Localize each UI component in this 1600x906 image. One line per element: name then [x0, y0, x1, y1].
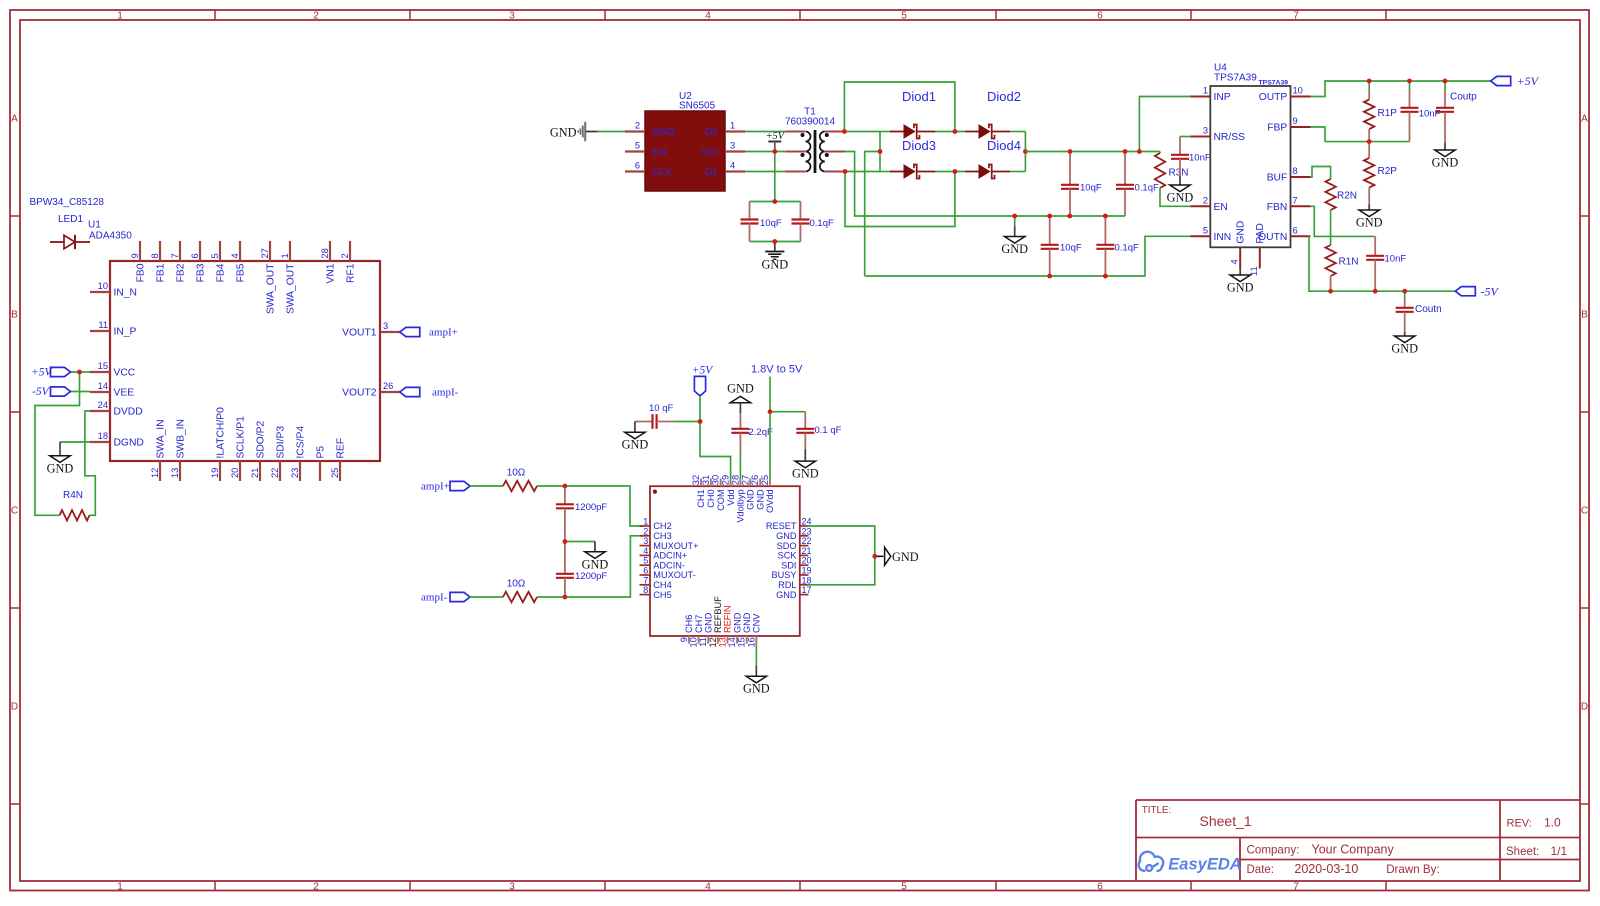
U4 pin 3 NR/SS: [1190, 136, 1210, 138]
svg-text:P5: P5: [315, 446, 326, 459]
svg-text:+5V: +5V: [766, 131, 786, 142]
svg-text:R3N: R3N: [1169, 168, 1189, 179]
wire: [1309, 236, 1455, 291]
svg-text:GND: GND: [1356, 216, 1383, 230]
U1 pin 3 VOUT1: [380, 331, 400, 333]
svg-text:D2: D2: [705, 127, 718, 138]
svg-text:DVDD: DVDD: [114, 407, 143, 418]
U2 pin 2 GND: [625, 130, 645, 132]
wire: [1180, 136, 1190, 138]
svg-text:2: 2: [635, 121, 640, 131]
wire: [565, 541, 595, 543]
ADC pin 2 CH3: [640, 535, 651, 537]
U4 pin 7 FBN: [1291, 205, 1311, 207]
U4 pin 4 GND: [1239, 247, 1241, 268]
svg-text:SDO/P2: SDO/P2: [255, 420, 266, 458]
svg-text:A: A: [1581, 114, 1588, 125]
ground at Coutp: [1444, 143, 1446, 150]
svg-text:CH3: CH3: [653, 531, 671, 541]
wire: [537, 536, 643, 597]
ADC pin 20 SDI: [800, 564, 809, 566]
svg-text:7: 7: [643, 575, 648, 585]
wire: [1160, 188, 1190, 206]
svg-text:1.0: 1.0: [1544, 816, 1561, 830]
svg-text:ampI+: ampI+: [421, 480, 450, 492]
ADC pin 22 SDO: [800, 545, 809, 547]
U1 pin 20 SCLK/P1: [239, 461, 241, 481]
ADC pin 29 Vdd: [730, 479, 732, 487]
svg-text:2: 2: [643, 526, 648, 536]
svg-text:4: 4: [705, 10, 711, 21]
svg-text:10: 10: [1293, 86, 1303, 96]
svg-text:9: 9: [679, 637, 689, 642]
junction: [1373, 289, 1378, 294]
U1 pin 13 SWB_IN: [179, 461, 181, 481]
U1 pin 1 SWA_OUT: [289, 241, 291, 261]
wire: [845, 152, 1125, 217]
svg-text:9: 9: [1293, 116, 1298, 126]
wire: [935, 131, 965, 133]
junction: [698, 419, 703, 424]
wire: [1025, 151, 1160, 153]
T1 pin stubs: [785, 131, 805, 133]
svg-text:5: 5: [635, 141, 640, 151]
svg-text:0.1 qF: 0.1 qF: [815, 425, 842, 436]
svg-text:COM: COM: [716, 489, 726, 510]
svg-text:0.1qF: 0.1qF: [1115, 243, 1139, 254]
wire: [1368, 81, 1370, 90]
svg-text:Drawn By:: Drawn By:: [1386, 863, 1439, 876]
svg-text:760390014: 760390014: [785, 116, 835, 127]
wire: [35, 372, 80, 515]
svg-text:30: 30: [711, 475, 721, 485]
svg-text:+5V: +5V: [1517, 74, 1540, 88]
U1 pin 25 REF: [339, 461, 341, 481]
U1 pin 15 VCC: [90, 371, 110, 373]
svg-text:10: 10: [98, 281, 108, 291]
svg-text:25: 25: [760, 475, 770, 485]
svg-text:3: 3: [730, 141, 735, 151]
net port +5V output: [1491, 76, 1511, 85]
svg-text:R1N: R1N: [1339, 257, 1359, 268]
junction: [1328, 289, 1333, 294]
U1 pin 19 !LATCH/P0: [219, 461, 221, 481]
svg-text:Date:: Date:: [1247, 864, 1275, 876]
junction: [842, 129, 847, 134]
svg-text:31: 31: [701, 475, 711, 485]
svg-text:+5V: +5V: [31, 367, 54, 379]
svg-text:Company:: Company:: [1247, 844, 1300, 857]
svg-text:1: 1: [643, 517, 648, 527]
svg-text:Diod1: Diod1: [902, 89, 936, 104]
U1 pin 4 FB5: [239, 241, 241, 261]
ADC pin 32 CH1: [700, 479, 702, 487]
svg-text:16: 16: [746, 637, 756, 647]
svg-text:10qF: 10qF: [760, 218, 782, 229]
wire: [1311, 81, 1491, 97]
svg-text:GND: GND: [745, 489, 755, 510]
svg-text:REV:: REV:: [1507, 818, 1532, 830]
svg-text:RF1: RF1: [345, 263, 356, 283]
svg-text:PAD: PAD: [1255, 223, 1266, 243]
wire: [674, 421, 700, 423]
ground at NR/SS cap: [1179, 176, 1181, 185]
ADC pin 1 marker: [653, 490, 657, 494]
wire: [750, 201, 801, 203]
U1 pin 21 SDO/P2: [259, 461, 261, 481]
U4 pin 2 EN: [1190, 205, 1210, 207]
wire: [1010, 171, 1025, 173]
svg-text:CH0: CH0: [706, 489, 716, 507]
svg-text:6: 6: [1293, 226, 1298, 236]
svg-text:FBP: FBP: [1267, 123, 1287, 134]
svg-text:Vcc: Vcc: [701, 147, 718, 158]
svg-text:REF: REF: [335, 438, 346, 459]
svg-text:6: 6: [635, 161, 640, 171]
svg-text:4: 4: [1230, 259, 1240, 264]
svg-text:BPW34_C85128: BPW34_C85128: [30, 197, 105, 208]
svg-text:ADA4350: ADA4350: [89, 231, 132, 242]
svg-text:29: 29: [721, 475, 731, 485]
svg-text:CNV: CNV: [752, 613, 762, 633]
svg-text:5: 5: [1203, 226, 1208, 236]
junction: [1023, 149, 1028, 154]
svg-text:TITLE:: TITLE:: [1142, 805, 1171, 816]
wire: [750, 241, 801, 243]
svg-text:2: 2: [313, 10, 319, 21]
junction: [1123, 149, 1128, 154]
ground at CNV: [755, 666, 757, 676]
U1 pin 23 !CS/P4: [299, 461, 301, 481]
svg-text:CH6: CH6: [684, 615, 694, 633]
svg-text:SWA_OUT: SWA_OUT: [285, 263, 296, 314]
svg-text:GND: GND: [761, 258, 788, 272]
svg-text:VOUT1: VOUT1: [342, 328, 377, 339]
junction: [772, 239, 777, 244]
svg-text:IN_N: IN_N: [114, 288, 137, 299]
junction: [77, 370, 82, 375]
svg-text:Sheet_1: Sheet_1: [1200, 813, 1252, 829]
svg-text:SCK: SCK: [778, 551, 798, 561]
resistor R2N: [1325, 179, 1335, 210]
svg-text:INP: INP: [1214, 92, 1231, 103]
svg-text:U1: U1: [88, 220, 101, 231]
transformer driver U2 SN6505 body: [645, 111, 725, 191]
svg-text:GND: GND: [1001, 242, 1028, 256]
junction: [1012, 214, 1017, 219]
svg-text:GND: GND: [703, 612, 713, 633]
svg-text:CH7: CH7: [694, 615, 704, 633]
svg-text:SWB_IN: SWB_IN: [175, 419, 186, 458]
capacitor 10qF lower pair: [1049, 216, 1051, 245]
svg-text:23: 23: [802, 526, 812, 536]
svg-text:VCC: VCC: [114, 368, 136, 379]
wire: [1139, 97, 1190, 152]
svg-text:6: 6: [1097, 10, 1103, 21]
wire: [845, 171, 880, 173]
wire: [71, 391, 91, 393]
ADC pin 7 CH4: [640, 584, 651, 586]
svg-text:INN: INN: [1214, 232, 1232, 243]
svg-text:11: 11: [698, 637, 708, 647]
svg-text:FB3: FB3: [195, 263, 206, 282]
svg-text:TPS7A39: TPS7A39: [1259, 79, 1289, 86]
svg-text:3: 3: [509, 10, 515, 21]
svg-text:1200pF: 1200pF: [575, 502, 607, 513]
wire: [807, 526, 875, 585]
svg-text:ADCIN-: ADCIN-: [653, 560, 685, 570]
svg-text:ampI+: ampI+: [429, 327, 458, 339]
svg-text:FB4: FB4: [215, 263, 226, 282]
wire: [1409, 81, 1411, 90]
wire: [880, 131, 891, 133]
svg-text:10 qF: 10 qF: [649, 403, 673, 414]
U2 pin 6 CLK: [625, 170, 645, 172]
wire: [597, 131, 625, 133]
svg-text:GND: GND: [1167, 191, 1194, 205]
svg-text:5: 5: [901, 881, 907, 892]
svg-text:D: D: [11, 702, 18, 713]
junction: [953, 129, 958, 134]
ADC pin 31 CH0: [710, 479, 712, 487]
wire: [1024, 132, 1026, 172]
svg-text:GND: GND: [792, 467, 819, 481]
svg-text:GND: GND: [1432, 156, 1459, 170]
wire: [745, 131, 785, 133]
svg-text:7: 7: [170, 253, 180, 258]
svg-text:C: C: [11, 506, 18, 517]
EasyEDA logo: [1139, 852, 1164, 871]
svg-text:D: D: [1581, 702, 1588, 713]
U2 pin 1 D2: [725, 130, 745, 132]
svg-text:SCLK/P1: SCLK/P1: [235, 416, 246, 459]
net port -5V output: [1455, 287, 1475, 296]
wire: [1311, 167, 1331, 180]
ADC pin 18 RDL: [800, 584, 809, 586]
wire: [1311, 206, 1376, 236]
U1 pin 9 FB0: [139, 241, 141, 261]
capacitor 10qF at T1: [749, 202, 751, 220]
regulator U4 body: [1210, 86, 1290, 247]
wire: [1311, 127, 1410, 142]
U1 pin P5 P5: [319, 461, 321, 481]
svg-text:VOUT2: VOUT2: [342, 388, 377, 399]
ADC pin 9 CH6: [688, 636, 690, 644]
svg-text:CH1: CH1: [696, 489, 706, 507]
junction: [1047, 214, 1052, 219]
svg-text:GND: GND: [776, 531, 797, 541]
svg-text:REFIN: REFIN: [723, 605, 733, 633]
svg-text:ampI-: ampI-: [421, 591, 448, 603]
resistor 10 ohm upper: [503, 481, 537, 491]
wire: [739, 453, 741, 479]
U1 pin 26 VOUT2: [380, 391, 400, 393]
wire: [935, 171, 965, 173]
svg-text:4: 4: [230, 253, 240, 258]
svg-text:MUXOUT+: MUXOUT+: [653, 541, 698, 551]
svg-text:19: 19: [210, 468, 220, 478]
capacitor 2.2qF at Vdolbyp: [739, 413, 741, 429]
svg-text:ampI-: ampI-: [432, 387, 459, 399]
svg-text:FB5: FB5: [235, 263, 246, 282]
svg-text:VN1: VN1: [325, 263, 336, 283]
junction: [878, 149, 883, 154]
svg-text:R1P: R1P: [1378, 108, 1398, 119]
wire: [845, 172, 955, 227]
svg-text:GND: GND: [776, 590, 797, 600]
svg-text:-5V: -5V: [32, 386, 51, 398]
wire: [1159, 152, 1161, 154]
svg-text:10: 10: [689, 637, 699, 647]
junction: [1103, 274, 1108, 279]
svg-text:23: 23: [290, 468, 300, 478]
junction: [1367, 79, 1372, 84]
svg-text:Vdd: Vdd: [726, 489, 736, 505]
wire: [1404, 291, 1406, 298]
svg-text:B: B: [1581, 310, 1588, 321]
svg-text:5: 5: [901, 10, 907, 21]
svg-text:10Ω: 10Ω: [507, 579, 526, 590]
wire: [879, 132, 881, 172]
svg-text:C: C: [1581, 506, 1588, 517]
ADC pin 10 CH7: [698, 636, 700, 644]
svg-text:R4N: R4N: [63, 490, 83, 501]
ADC pin 17 GND: [800, 594, 809, 596]
capacitor 10nF at FBN: [1374, 236, 1376, 255]
svg-text:15: 15: [737, 637, 747, 647]
junction: [1068, 149, 1073, 154]
svg-text:10qF: 10qF: [1060, 243, 1082, 254]
capacitor 1200pF upper: [564, 486, 566, 504]
ground under T1 caps: [774, 242, 776, 252]
resistor 10 ohm lower: [503, 592, 537, 602]
ADC pin 24 RESET: [800, 525, 809, 527]
svg-text:18: 18: [98, 431, 108, 441]
junction: [1067, 214, 1072, 219]
svg-text:3: 3: [1203, 126, 1208, 136]
net port ampI- at VOUT2: [400, 387, 420, 396]
svg-text:11: 11: [98, 320, 108, 330]
svg-text:1: 1: [1203, 86, 1208, 96]
svg-text:1: 1: [280, 253, 290, 258]
svg-text:GND: GND: [582, 557, 609, 571]
svg-text:6: 6: [1097, 881, 1103, 892]
U1 pin 27 SWA_OUT: [269, 241, 271, 261]
junction: [843, 169, 848, 174]
junction: [953, 169, 958, 174]
wire: [85, 411, 95, 515]
svg-text:21: 21: [802, 546, 812, 556]
svg-text:1: 1: [117, 10, 123, 21]
ADC pin 30 COM: [720, 479, 722, 487]
svg-text:EN: EN: [652, 147, 666, 158]
svg-text:Coutn: Coutn: [1415, 304, 1442, 315]
wire: [774, 152, 776, 202]
svg-text:15: 15: [98, 361, 108, 371]
svg-text:10nF: 10nF: [1385, 254, 1407, 265]
wire: [844, 131, 880, 133]
svg-text:3: 3: [643, 536, 648, 546]
ADC pin 5 ADCIN-: [640, 564, 651, 566]
svg-text:A: A: [11, 114, 18, 125]
svg-text:FB1: FB1: [155, 263, 166, 282]
svg-text:9: 9: [130, 253, 140, 258]
ADC pin 27 GND: [749, 479, 751, 487]
svg-text:LED1: LED1: [58, 214, 83, 225]
svg-text:27: 27: [260, 248, 270, 258]
ground at R2P: [1368, 205, 1370, 210]
U1 pin 12 SWA_IN: [159, 461, 161, 481]
svg-text:4: 4: [730, 161, 735, 171]
ground at 0.1 qF: [804, 449, 806, 461]
junction: [563, 539, 568, 544]
wire: [1444, 81, 1446, 90]
resistor R2P: [1368, 142, 1370, 158]
svg-text:5: 5: [210, 253, 220, 258]
ground at Coutn: [1404, 332, 1406, 336]
op-amp U1 ADA4350 body: [110, 261, 380, 461]
svg-text:GND: GND: [742, 612, 752, 633]
junction: [1407, 79, 1412, 84]
svg-text:1: 1: [117, 881, 123, 892]
svg-text:2020-03-10: 2020-03-10: [1294, 862, 1358, 876]
svg-text:MUXOUT-: MUXOUT-: [653, 570, 695, 580]
svg-text:SDO: SDO: [777, 541, 797, 551]
title block: [1136, 799, 1580, 801]
U1 pin 18 DGND: [90, 441, 110, 443]
svg-text:12: 12: [150, 468, 160, 478]
U1 pin 28 VN1: [329, 241, 331, 261]
U1 pin 10 IN_N: [90, 291, 110, 293]
svg-text:4: 4: [643, 546, 648, 556]
ADC pin 28 Vdolbyp: [739, 479, 741, 487]
svg-text:+5V: +5V: [692, 365, 715, 377]
svg-text:2: 2: [340, 253, 350, 258]
U1 pin 8 FB1: [159, 241, 161, 261]
svg-text:GND: GND: [550, 125, 577, 139]
U4 pin 6 OUTN: [1291, 235, 1311, 237]
wire: [470, 596, 503, 598]
wire: [865, 236, 1191, 276]
svg-text:CH5: CH5: [653, 590, 671, 600]
U2 pin 4 D1: [725, 170, 745, 172]
svg-text:4: 4: [705, 881, 711, 892]
svg-text:FBN: FBN: [1267, 202, 1288, 213]
svg-text:RESET: RESET: [766, 521, 797, 531]
svg-text:6: 6: [190, 253, 200, 258]
svg-text:CH2: CH2: [653, 521, 671, 531]
svg-text:1/1: 1/1: [1551, 844, 1568, 858]
svg-text:SWA_IN: SWA_IN: [155, 419, 166, 458]
wire: [745, 171, 785, 173]
svg-text:13: 13: [170, 468, 180, 478]
svg-text:RDL: RDL: [778, 580, 796, 590]
capacitor 10qF positive rail: [1069, 152, 1071, 185]
svg-text:28: 28: [730, 475, 740, 485]
photodiode LED1: [50, 241, 64, 243]
svg-text:10nF: 10nF: [1419, 109, 1441, 120]
svg-text:R2P: R2P: [1378, 166, 1398, 177]
svg-text:ADCIN+: ADCIN+: [653, 551, 687, 561]
svg-text:Sheet:: Sheet:: [1506, 846, 1539, 858]
svg-text:27: 27: [740, 475, 750, 485]
U1 pin 5 FB4: [219, 241, 221, 261]
svg-text:NR/SS: NR/SS: [1214, 132, 1246, 143]
svg-text:SWA_OUT: SWA_OUT: [265, 263, 276, 314]
U2 pin 3 Vcc: [725, 150, 745, 152]
ADC U3 body: [650, 486, 800, 636]
ground at 1200pF midpoint: [594, 542, 596, 552]
